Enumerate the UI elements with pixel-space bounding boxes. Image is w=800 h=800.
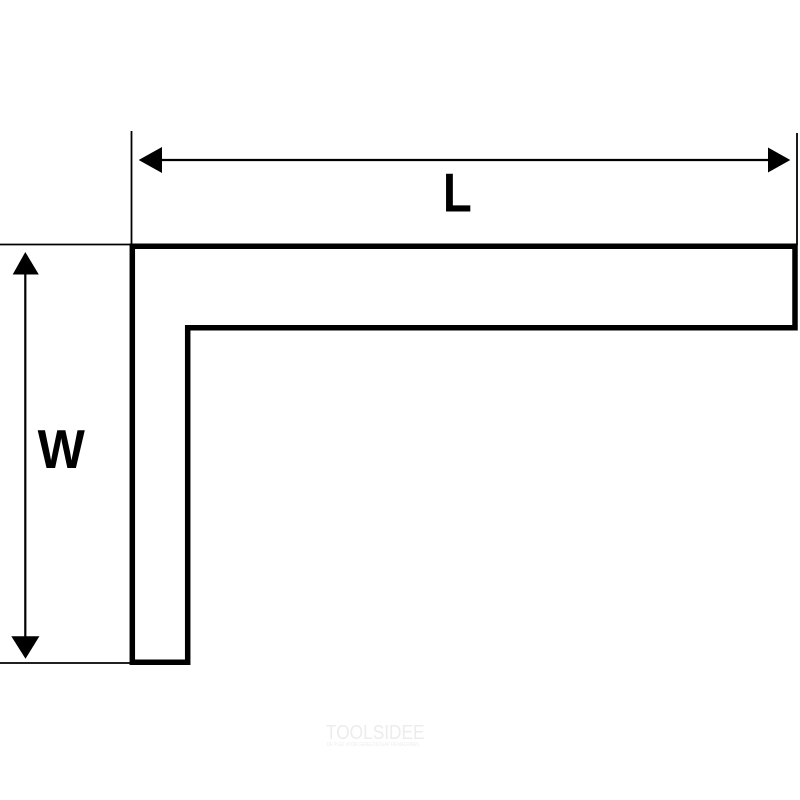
extension line bottom horizontal (left of shape, for W bottom) (0, 662, 133, 664)
extension line right vertical (796, 133, 798, 245)
svg-text:DE PLEK VOOR GEREEDSCHAP EN MA: DE PLEK VOOR GEREEDSCHAP EN MACHINES (327, 742, 419, 748)
dimension line L (horizontal) (150, 159, 780, 161)
arrowhead L right (768, 148, 790, 173)
dimension line W (vertical) (24, 262, 26, 650)
svg-text:TOOLSIDEE: TOOLSIDEE (326, 721, 425, 744)
extension line left vertical (above shape corner) (131, 131, 133, 246)
svg-text:W: W (38, 419, 86, 481)
arrowhead L left (139, 147, 162, 173)
arrowhead W top (13, 252, 39, 275)
extension line top horizontal (left of shape, for W top) (0, 244, 133, 246)
arrowhead W bottom (11, 636, 39, 659)
L-shaped square outline (132, 246, 795, 662)
svg-text:L: L (443, 162, 472, 223)
